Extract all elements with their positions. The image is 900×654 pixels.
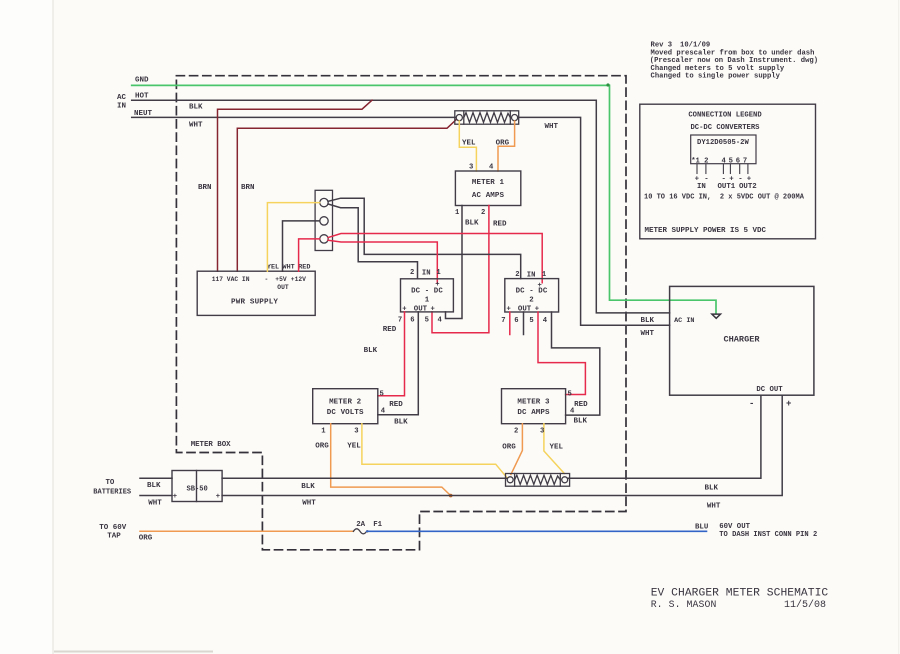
svg-text:BATTERIES: BATTERIES (93, 489, 131, 497)
svg-text:DC-DC CONVERTERS: DC-DC CONVERTERS (690, 124, 760, 132)
svg-text:NEUT: NEUT (134, 110, 153, 118)
resistor R1 AC current shunt (455, 111, 519, 124)
wire BLK J1 pin1 to DC-DC2 pin2 (328, 198, 521, 278)
svg-text:BLK: BLK (465, 220, 479, 228)
svg-text:DC - DC: DC - DC (516, 288, 548, 296)
connector J1 3-pin (315, 190, 332, 250)
rev notes (650, 42, 818, 81)
svg-text:RED: RED (383, 326, 397, 334)
svg-text:2 x 5VDC OUT @ 200MA: 2 x 5VDC OUT @ 200MA (720, 193, 805, 201)
svg-text:+5V: +5V (275, 276, 287, 283)
wire ORG R1 to meter1 pin 4 (498, 121, 515, 171)
wire BLK stub DC-DC2 pin6 (523, 312, 525, 335)
wire RED stub DC-DC2 pin7 (509, 312, 511, 335)
svg-text:1: 1 (425, 297, 430, 305)
svg-text:R. S. MASON: R. S. MASON (651, 599, 717, 610)
svg-text:BLK: BLK (189, 104, 203, 112)
wire RED PSU +12V to J1 pin3 (299, 239, 320, 271)
svg-text:OUT2: OUT2 (739, 183, 757, 191)
svg-text:6: 6 (410, 317, 414, 325)
node AC IN labels (117, 92, 153, 118)
wire YEL meter3 pin3 to R2 right (544, 424, 564, 474)
svg-text:ORG: ORG (496, 140, 510, 148)
svg-text:AC: AC (117, 94, 127, 102)
ground symbol at charger (712, 314, 721, 318)
svg-text:IN: IN (117, 103, 126, 111)
svg-text:PWR SUPPLY: PWR SUPPLY (231, 299, 278, 307)
legend box (640, 104, 816, 239)
svg-text:TAP: TAP (107, 533, 121, 541)
wire PSU line BLK (brown lead) (218, 100, 373, 271)
svg-text:YEL: YEL (267, 263, 279, 271)
svg-text:BLK: BLK (705, 485, 719, 493)
svg-text:METER BOX: METER BOX (191, 441, 231, 449)
svg-text:METER 2: METER 2 (329, 399, 362, 407)
wire WHT PSU +5V to J1 pin2 (283, 221, 320, 271)
GND label (135, 77, 149, 85)
legend converter DY12D0505-2W (691, 135, 756, 164)
svg-text:METER 1: METER 1 (472, 179, 505, 187)
svg-text:WHT: WHT (283, 263, 295, 271)
wire YEL meter2 pin3 to shunt R2 (362, 424, 507, 478)
svg-text:IN: IN (697, 183, 706, 191)
wire ORG 60V tap to fuse (140, 530, 353, 532)
svg-text:2: 2 (515, 271, 519, 279)
svg-text:2: 2 (481, 209, 485, 217)
svg-text:2: 2 (514, 427, 518, 435)
wire YEL R1 to meter1 pin 3 (459, 121, 476, 171)
dashed METER BOX outline (176, 76, 626, 550)
legend pin polarity labels (695, 176, 757, 191)
svg-text:ORG: ORG (315, 442, 329, 450)
svg-text:BRN: BRN (198, 184, 212, 192)
svg-text:WHT: WHT (707, 503, 721, 511)
wire ORG meter2 pin1 to WHT rail (331, 424, 453, 498)
svg-text:TO: TO (106, 479, 115, 487)
svg-text:ORG: ORG (502, 444, 516, 452)
node TO BATTERIES labels (93, 479, 131, 497)
meter M1 METER 1 AC AMPS (455, 171, 520, 206)
wire YEL PSU - to J1 pin1 (267, 203, 319, 272)
svg-text:OUT: OUT (518, 305, 532, 313)
svg-text:BLU: BLU (695, 523, 708, 531)
svg-text:DC OUT: DC OUT (756, 386, 783, 394)
svg-text:5: 5 (380, 390, 384, 398)
svg-text:5: 5 (529, 317, 533, 325)
svg-text:6: 6 (514, 317, 518, 325)
meter M2 METER 2 DC VOLTS (313, 389, 378, 424)
svg-text:4: 4 (438, 317, 443, 325)
wire AC NEUT to shunt R1 (132, 116, 457, 118)
svg-text:WHT: WHT (189, 122, 203, 130)
svg-text:60V OUT: 60V OUT (719, 523, 750, 531)
node GND green wire (132, 83, 716, 313)
svg-text:HOT: HOT (135, 92, 149, 100)
svg-text:2: 2 (529, 297, 533, 305)
wire RED DC-DC1 pin7 to meter2 pin5 (378, 312, 405, 396)
svg-text:+12V: +12V (291, 276, 306, 283)
svg-text:F1: F1 (373, 521, 382, 529)
svg-text:RED: RED (298, 263, 310, 271)
svg-text:117 VAC IN: 117 VAC IN (212, 276, 250, 283)
title block (651, 588, 829, 612)
svg-text:SB-50: SB-50 (187, 486, 208, 494)
svg-text:WHT: WHT (302, 500, 316, 508)
svg-text:OUT1: OUT1 (718, 183, 736, 191)
svg-text:BLK: BLK (394, 419, 408, 427)
wire BLU 60V out (367, 530, 707, 532)
svg-text:AC AMPS: AC AMPS (472, 192, 505, 200)
node TO 60V TAP labels (99, 524, 127, 541)
svg-text:AC IN: AC IN (674, 317, 694, 325)
svg-text:+: + (786, 399, 791, 409)
wire PSU neutral WHT (brown lead) (237, 119, 456, 271)
legend pin ticks (697, 165, 748, 174)
wire BLK DC-DC2 pin4 to meter3 pin4 (552, 312, 600, 415)
power supply PS1 (197, 271, 315, 315)
svg-text:-: - (265, 276, 269, 283)
svg-text:BRN: BRN (241, 184, 255, 192)
svg-text:7: 7 (398, 317, 402, 325)
svg-text:YEL: YEL (550, 444, 564, 452)
connector SB-50 (172, 471, 222, 502)
svg-text:METER 3: METER 3 (517, 399, 550, 407)
svg-text:BLK: BLK (574, 418, 588, 426)
svg-text:YEL: YEL (462, 140, 476, 148)
svg-text:-: - (749, 399, 754, 409)
svg-text:Changed to single power supply: Changed to single power supply (651, 72, 781, 80)
svg-text:1: 1 (455, 209, 460, 217)
svg-text:RED: RED (574, 401, 588, 409)
svg-text:3: 3 (354, 427, 358, 435)
svg-text:METER SUPPLY POWER IS 5 VDC: METER SUPPLY POWER IS 5 VDC (645, 227, 767, 235)
svg-text:CHARGER: CHARGER (723, 335, 760, 345)
wire RED J1 pin3 to DC-DC1 pin1 (328, 240, 437, 283)
wire RED DC-DC2 pin5 to meter3 pin5 (538, 312, 585, 395)
legend notes (644, 193, 805, 235)
svg-text:OUT: OUT (414, 305, 428, 313)
svg-text:5: 5 (568, 390, 572, 398)
wire RED meter1 pin2 to DC-DC1 pin5 (432, 206, 489, 333)
wire BLK J1 pin1 to DC-DC1 pin2 (328, 204, 418, 279)
fuse F1 2A (353, 529, 368, 534)
svg-text:5: 5 (425, 317, 429, 325)
resistor R2 DC current shunt (506, 474, 570, 487)
wire BLK DC-DC1 pin6 to meter2 pin4 (378, 312, 419, 415)
wire WHT battery rail to charger + (140, 395, 782, 495)
svg-text:4567: 4567 (722, 158, 750, 166)
wire BLK battery rail to charger - (140, 395, 761, 478)
svg-text:DC - DC: DC - DC (411, 288, 443, 296)
svg-text:YEL: YEL (347, 442, 361, 450)
svg-text:1: 1 (436, 269, 441, 277)
svg-text:+: + (173, 493, 177, 501)
svg-text:CONNECTION LEGEND: CONNECTION LEGEND (688, 111, 762, 119)
METER BOX label (191, 441, 231, 449)
svg-text:Rev 3: Rev 3 (651, 42, 673, 50)
svg-text:1: 1 (321, 427, 326, 435)
svg-text:10/1/09: 10/1/09 (680, 42, 710, 50)
svg-text:11/5/08: 11/5/08 (784, 599, 826, 611)
converter U2 DC-DC 2 (505, 279, 559, 312)
svg-text:OUT: OUT (277, 284, 289, 291)
svg-text:2A: 2A (356, 521, 365, 529)
meter M3 METER 3 DC AMPS (502, 389, 566, 424)
svg-text:BLK: BLK (147, 482, 161, 490)
svg-text:1: 1 (542, 271, 547, 279)
svg-text:WHT: WHT (545, 123, 559, 131)
svg-text:TO DASH INST CONN PIN 2: TO DASH INST CONN PIN 2 (719, 531, 817, 539)
wire AC HOT to charger (132, 100, 670, 313)
wire RED J1 pin3 to DC-DC2 pin1 (328, 234, 542, 283)
svg-text:WHT: WHT (148, 500, 162, 508)
svg-text:4: 4 (543, 317, 548, 325)
svg-text:GND: GND (135, 77, 149, 85)
svg-text:DY12D0505-2W: DY12D0505-2W (697, 139, 749, 147)
wire ORG meter3 pin2 to R2 left (511, 424, 523, 475)
wire WHT shunt R1 to charger (518, 117, 670, 325)
svg-text:3: 3 (540, 427, 544, 435)
wire BLK meter1 pin1 to DC-DC1 pin4 (446, 206, 463, 319)
svg-text:10 TO 16 VDC IN,: 10 TO 16 VDC IN, (644, 193, 711, 201)
charger U3 (670, 286, 814, 395)
svg-text:ORG: ORG (139, 535, 153, 543)
svg-text:BLK: BLK (301, 483, 315, 491)
svg-text:DC AMPS: DC AMPS (517, 409, 550, 417)
svg-text:RED: RED (493, 221, 507, 229)
svg-text:+: + (216, 493, 220, 501)
svg-text:IN: IN (422, 270, 431, 278)
svg-text:+: + (431, 305, 435, 313)
converter U1 DC-DC 1 (401, 279, 454, 312)
svg-text:TO 60V: TO 60V (99, 524, 127, 532)
svg-text:4: 4 (570, 408, 575, 416)
svg-text:4: 4 (381, 408, 386, 416)
svg-text:EV CHARGER METER SCHEMATIC: EV CHARGER METER SCHEMATIC (651, 588, 829, 600)
svg-text:IN: IN (527, 272, 536, 280)
svg-text:2: 2 (410, 269, 414, 277)
svg-text:WHT: WHT (641, 330, 655, 338)
svg-text:RED: RED (389, 401, 403, 409)
svg-text:BLK: BLK (364, 347, 378, 355)
svg-text:7: 7 (501, 317, 505, 325)
svg-text:BLK: BLK (641, 317, 655, 325)
svg-text:DC VOLTS: DC VOLTS (327, 409, 364, 417)
